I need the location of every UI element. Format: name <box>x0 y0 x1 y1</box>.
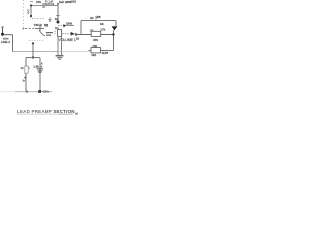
svg-text:17k: 17k <box>100 28 105 32</box>
svg-text:1k: 1k <box>21 66 25 70</box>
svg-text:1R: 1R <box>90 28 94 32</box>
svg-text:V3: V3 <box>44 24 48 28</box>
svg-text:=100n: =100n <box>42 90 50 94</box>
svg-text:xR: xR <box>90 16 94 20</box>
svg-text:Ek: Ek <box>55 17 59 21</box>
svg-text:10k: 10k <box>92 44 97 48</box>
svg-text:4k7: 4k7 <box>102 51 107 55</box>
svg-text:10k: 10k <box>36 0 41 4</box>
svg-text:LEAD PREAMP SECTION: LEAD PREAMP SECTION <box>17 109 75 114</box>
svg-text:V3b-2: V3b-2 <box>34 23 43 27</box>
svg-text:LINE 2: LINE 2 <box>1 40 10 44</box>
svg-text:2k2: 2k2 <box>91 53 96 57</box>
svg-text:.022: .022 <box>71 0 77 4</box>
svg-text:47k: 47k <box>93 38 98 42</box>
svg-text:Ck: Ck <box>100 22 104 26</box>
svg-text:in: in <box>23 79 26 83</box>
svg-text:150k: 150k <box>66 22 73 26</box>
svg-text:1k: 1k <box>76 36 80 40</box>
svg-text:1.5k: 1.5k <box>33 64 39 68</box>
